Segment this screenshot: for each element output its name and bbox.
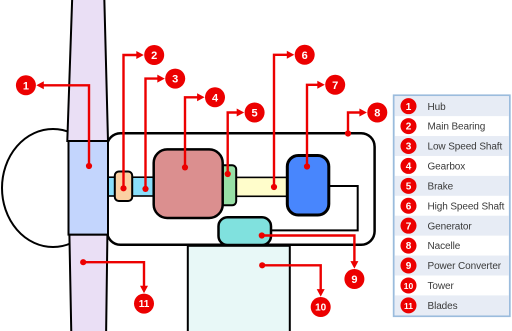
low speed shaft (108, 177, 156, 196)
svg-text:1: 1 (23, 80, 29, 92)
hub plate (69, 141, 109, 235)
marker 2 (120, 45, 164, 191)
legend item 11 Blades (401, 297, 458, 313)
generator (287, 156, 329, 216)
svg-text:8: 8 (374, 108, 380, 120)
high speed shaft (228, 177, 288, 196)
marker 11 (80, 259, 154, 314)
svg-text:High Speed Shaft: High Speed Shaft (428, 201, 505, 212)
svg-text:Power Converter: Power Converter (428, 261, 502, 272)
marker 9 (259, 232, 365, 289)
marker 3 (142, 69, 185, 192)
legend item 2 Main Bearing (401, 118, 486, 134)
legend item 9 Power Converter (401, 258, 502, 274)
hub nose cone (2, 129, 104, 247)
svg-text:11: 11 (139, 299, 150, 310)
svg-text:4: 4 (406, 162, 412, 173)
marker 8 (345, 103, 387, 137)
svg-text:7: 7 (332, 80, 338, 92)
svg-text:1: 1 (406, 102, 412, 113)
power converter (219, 217, 272, 245)
svg-text:5: 5 (406, 181, 412, 192)
blade top (67, 0, 108, 141)
legend item 1 Hub (401, 98, 447, 114)
svg-text:11: 11 (404, 301, 413, 311)
svg-text:6: 6 (406, 201, 412, 212)
svg-text:Blades: Blades (428, 301, 458, 312)
svg-text:Nacelle: Nacelle (428, 241, 461, 252)
svg-text:6: 6 (302, 50, 308, 62)
legend item 8 Nacelle (401, 238, 461, 254)
legend item 6 High Speed Shaft (401, 198, 505, 214)
svg-text:Main Bearing: Main Bearing (428, 122, 486, 133)
nacelle (107, 133, 375, 245)
svg-text:Brake: Brake (428, 181, 454, 192)
svg-text:Tower: Tower (428, 281, 455, 292)
legend item 10 Tower (401, 277, 455, 293)
svg-text:10: 10 (404, 281, 414, 291)
legend box (394, 95, 510, 316)
svg-text:Generator: Generator (428, 221, 473, 232)
svg-text:10: 10 (315, 303, 327, 314)
svg-text:2: 2 (406, 122, 412, 133)
svg-text:2: 2 (151, 50, 157, 62)
marker 10 (259, 262, 331, 317)
legend item 7 Generator (401, 218, 473, 234)
main bearing (115, 172, 132, 202)
svg-text:5: 5 (252, 108, 258, 120)
svg-text:4: 4 (212, 92, 219, 104)
gearbox (154, 149, 223, 218)
svg-text:9: 9 (351, 274, 357, 286)
marker 6 (271, 45, 315, 190)
marker 4 (182, 87, 225, 170)
marker 7 (304, 75, 345, 170)
svg-text:7: 7 (406, 221, 412, 232)
svg-text:8: 8 (406, 241, 412, 252)
svg-text:Hub: Hub (428, 102, 447, 113)
legend item 4 Gearbox (401, 158, 466, 174)
legend item 3 Low Speed Shaft (401, 138, 503, 154)
power cable (271, 186, 358, 230)
brake (219, 165, 236, 205)
blade bottom (69, 235, 107, 331)
tower (188, 246, 290, 331)
svg-text:9: 9 (406, 261, 412, 272)
svg-text:3: 3 (406, 142, 412, 153)
legend item 5 Brake (401, 178, 454, 194)
svg-text:Low Speed Shaft: Low Speed Shaft (428, 142, 503, 153)
svg-text:3: 3 (172, 74, 178, 86)
marker 1 (16, 75, 92, 169)
marker 5 (225, 103, 265, 178)
svg-text:Gearbox: Gearbox (428, 162, 466, 173)
